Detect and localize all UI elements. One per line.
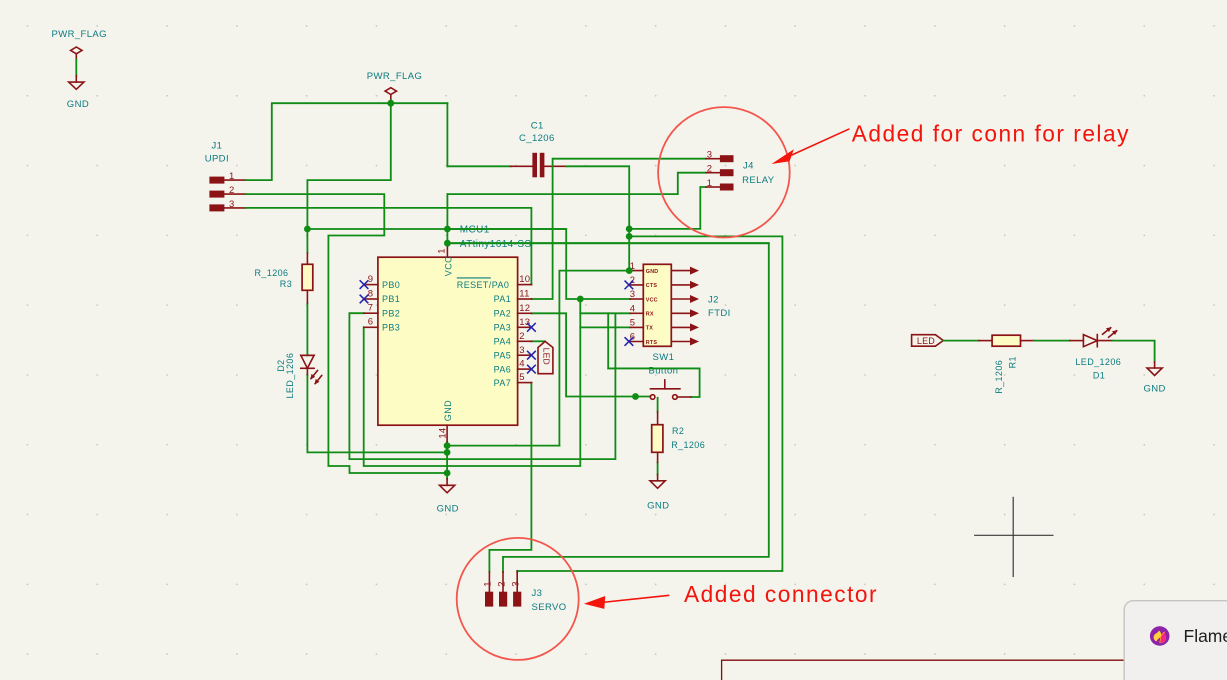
svg-text:PA5: PA5 bbox=[494, 350, 512, 360]
svg-text:RELAY: RELAY bbox=[742, 175, 775, 186]
svg-text:J3: J3 bbox=[532, 588, 543, 599]
ground GND (top-left) bbox=[67, 76, 89, 110]
svg-text:Button: Button bbox=[649, 365, 679, 376]
junction dot VCC/ATtiny row bbox=[444, 240, 451, 247]
global label LED (at PA4) bbox=[538, 341, 553, 373]
svg-text:J1: J1 bbox=[212, 140, 223, 151]
svg-text:CTS: CTS bbox=[646, 283, 658, 289]
svg-text:13: 13 bbox=[519, 317, 530, 328]
svg-text:GND: GND bbox=[67, 99, 89, 110]
svg-text:9: 9 bbox=[368, 274, 373, 285]
wire VCC column down to C1 row bbox=[446, 103, 448, 166]
svg-text:6: 6 bbox=[368, 317, 373, 328]
svg-text:5: 5 bbox=[519, 372, 524, 383]
MCU pin 14 GND (bottom) bbox=[438, 400, 453, 442]
wire J2 TX row bbox=[580, 326, 630, 328]
svg-text:PB1: PB1 bbox=[382, 294, 400, 304]
no-connect X PB0 bbox=[360, 281, 368, 289]
wire PWR junction down to R3 column bbox=[307, 103, 390, 253]
wire J2 RX row bbox=[580, 312, 630, 314]
svg-text:J2: J2 bbox=[708, 295, 719, 306]
svg-text:PA2: PA2 bbox=[494, 309, 512, 319]
cursor crosshair bbox=[974, 497, 1053, 577]
svg-text:4: 4 bbox=[630, 304, 635, 315]
wire relay pin1 branch bbox=[629, 187, 706, 229]
svg-text:PA4: PA4 bbox=[494, 337, 512, 347]
svg-text:C_1206: C_1206 bbox=[519, 133, 555, 144]
junction dot C1 column lower bbox=[626, 233, 633, 240]
svg-text:GND: GND bbox=[647, 501, 669, 512]
wire MCU1 row to J2 VCC bbox=[307, 229, 630, 299]
LED D1 LED_1206 bbox=[1070, 327, 1121, 381]
resistor R3 R_1206 bbox=[255, 253, 313, 303]
svg-text:R_1206: R_1206 bbox=[671, 440, 705, 450]
power flag PWR_FLAG (above MCU) bbox=[367, 71, 422, 100]
svg-text:7: 7 bbox=[368, 303, 373, 314]
svg-text:MCU1: MCU1 bbox=[460, 225, 490, 236]
connector J2 FTDI bbox=[629, 261, 731, 347]
wire PWR_FLAG to GND (top-left) bbox=[75, 60, 77, 76]
svg-text:PA6: PA6 bbox=[494, 364, 512, 374]
switch SW1 Button bbox=[649, 352, 691, 400]
svg-text:GND: GND bbox=[443, 400, 453, 421]
svg-text:3: 3 bbox=[511, 581, 522, 586]
svg-text:14: 14 bbox=[438, 428, 449, 439]
svg-text:VCC: VCC bbox=[444, 256, 454, 276]
svg-text:8: 8 bbox=[368, 288, 373, 299]
svg-text:GND: GND bbox=[646, 269, 659, 275]
svg-text:RX: RX bbox=[646, 312, 654, 318]
svg-text:Added connector: Added connector bbox=[684, 581, 878, 607]
junction dot R3 top bbox=[304, 226, 311, 233]
svg-text:Flame: Flame bbox=[1184, 626, 1227, 646]
svg-text:5: 5 bbox=[630, 318, 635, 329]
ground GND (under R2) bbox=[647, 475, 669, 512]
ground GND (under MCU) bbox=[437, 479, 459, 515]
wire J2 pin1 row bbox=[559, 271, 629, 446]
svg-text:RESET/PA0: RESET/PA0 bbox=[457, 280, 509, 290]
no-connect X J2 CTS bbox=[625, 281, 633, 289]
svg-text:PB2: PB2 bbox=[382, 308, 400, 318]
junction dot J2 pin1 bbox=[626, 267, 633, 274]
junction dot VCC/MCU1 row bbox=[444, 226, 451, 233]
junction dot C1 column upper bbox=[626, 226, 633, 233]
MCU left pins PB0-PB3 bbox=[364, 274, 400, 333]
annotation arrow (relay) bbox=[772, 129, 850, 164]
MCU pin 1 VCC (top) bbox=[437, 246, 454, 276]
capacitor C1 C_1206 bbox=[511, 120, 567, 177]
svg-text:3: 3 bbox=[630, 289, 635, 300]
wire button to R2 bbox=[657, 398, 659, 412]
wire VCC row to relay pin2 bbox=[447, 173, 706, 194]
ground GND (right circuit) bbox=[1144, 362, 1166, 394]
svg-text:LED_1206: LED_1206 bbox=[1075, 357, 1121, 367]
wire PA4 to LED label bbox=[531, 340, 545, 342]
wire PA1 to relay pin3 bbox=[531, 159, 706, 299]
connector J4 RELAY bbox=[706, 150, 775, 191]
svg-text:10: 10 bbox=[519, 274, 530, 285]
wire LED label to R1 bbox=[943, 340, 979, 342]
wire R1 to D1 bbox=[1034, 340, 1070, 342]
svg-text:SW1: SW1 bbox=[653, 352, 675, 363]
svg-text:J4: J4 bbox=[743, 160, 754, 171]
svg-text:11: 11 bbox=[519, 289, 529, 300]
wire RX to button right pin bbox=[608, 313, 699, 397]
svg-text:FTDI: FTDI bbox=[708, 308, 731, 319]
junction dot PWR_FLAG bbox=[387, 100, 394, 107]
svg-text:GND: GND bbox=[437, 504, 459, 515]
svg-text:1: 1 bbox=[437, 248, 448, 253]
svg-text:LED: LED bbox=[917, 336, 935, 346]
wire PWR_FLAG stem to junction bbox=[390, 100, 392, 103]
wire GND bundle row1 bbox=[447, 445, 559, 447]
J2 output arrows bbox=[671, 267, 699, 346]
svg-text:3: 3 bbox=[519, 345, 524, 356]
no-connect X PA6 bbox=[528, 365, 536, 373]
svg-text:LED_1206: LED_1206 bbox=[285, 353, 295, 399]
junction dot button left bbox=[632, 393, 639, 400]
wire overdraw button row (over text) bbox=[608, 367, 699, 369]
svg-text:GND: GND bbox=[1144, 383, 1166, 394]
popup notification (Flame) bbox=[1124, 601, 1227, 680]
wire R2 to GND bbox=[657, 462, 659, 474]
svg-text:R2: R2 bbox=[672, 426, 684, 436]
no-connect X PA5 bbox=[528, 351, 536, 359]
connector J3 SERVO bbox=[483, 571, 567, 613]
wire C1 left lead bbox=[447, 165, 510, 167]
svg-text:R3: R3 bbox=[280, 279, 292, 289]
annotation arrow (servo) bbox=[584, 595, 669, 609]
svg-text:2: 2 bbox=[497, 581, 508, 586]
wire PA2 to button bbox=[531, 313, 650, 396]
svg-text:SERVO: SERVO bbox=[532, 602, 567, 613]
svg-text:4: 4 bbox=[519, 359, 524, 370]
wire C1 right to J2 pin1 column bbox=[566, 166, 629, 270]
microcontroller MCU1 ATtiny1614-SS bbox=[378, 225, 532, 426]
svg-text:Added for conn for relay: Added for conn for relay bbox=[852, 121, 1130, 147]
wire overdraw ATtiny row (over text) bbox=[447, 242, 768, 244]
connector J1 UPDI bbox=[205, 140, 246, 211]
svg-text:R1: R1 bbox=[1008, 356, 1018, 368]
resistor R1 R_1206 bbox=[979, 335, 1034, 394]
svg-text:PWR_FLAG: PWR_FLAG bbox=[52, 29, 107, 40]
svg-text:D1: D1 bbox=[1093, 371, 1105, 381]
wire R3 to D2 bbox=[306, 303, 308, 355]
wire ATtiny row to servo pin2 bbox=[447, 243, 768, 572]
annotation circle (relay) bbox=[658, 107, 790, 237]
wire D1 to GND bbox=[1113, 341, 1155, 362]
svg-text:R_1206: R_1206 bbox=[255, 268, 289, 278]
junction dot GND row3 bbox=[444, 470, 451, 477]
svg-text:RTS: RTS bbox=[646, 340, 658, 346]
svg-text:1: 1 bbox=[483, 581, 494, 586]
wire RX/TX/PB3 column bbox=[364, 299, 581, 466]
wire J1 pin2 bundle route bbox=[246, 194, 448, 473]
svg-text:LED: LED bbox=[542, 348, 552, 365]
junction dot GND row2 bbox=[444, 449, 451, 456]
svg-text:C1: C1 bbox=[531, 120, 544, 131]
wire PB2 to RX column bbox=[349, 313, 615, 459]
no-connect X PB1 bbox=[360, 295, 368, 303]
LED D2 LED_1206 bbox=[276, 353, 322, 399]
junction dot GND row1 bbox=[444, 442, 451, 449]
svg-text:PA3: PA3 bbox=[494, 323, 512, 333]
svg-text:UPDI: UPDI bbox=[205, 154, 229, 165]
global label LED (right circuit) bbox=[912, 335, 944, 347]
svg-text:12: 12 bbox=[519, 303, 530, 314]
no-connect X J2 RTS bbox=[625, 338, 633, 346]
junction dot VCC row / RX column bbox=[577, 296, 584, 303]
sheet border corner bbox=[722, 660, 1140, 680]
svg-text:PB0: PB0 bbox=[382, 280, 400, 290]
svg-text:TX: TX bbox=[646, 326, 653, 332]
wire J1 pin1 to PWR_FLAG row bbox=[246, 103, 448, 180]
wire VCC net vertical (MCU pin1) bbox=[446, 194, 448, 246]
svg-text:ATtiny1614-SS: ATtiny1614-SS bbox=[460, 239, 532, 250]
svg-text:R_1206: R_1206 bbox=[994, 360, 1004, 394]
wire PA7 to servo pin1 bbox=[489, 383, 531, 572]
resistor R2 R_1206 bbox=[652, 412, 705, 463]
svg-text:PA1: PA1 bbox=[494, 294, 512, 304]
svg-text:VCC: VCC bbox=[646, 297, 658, 303]
wire MCU GND column bbox=[446, 442, 448, 479]
wire J1 pin3 to PA0 bbox=[246, 208, 532, 285]
wire overdraw MCU1 row (over text) bbox=[447, 228, 566, 230]
power flag PWR_FLAG (top-left) bbox=[52, 29, 107, 60]
MCU right pins PA0-PA7 bbox=[457, 274, 532, 388]
svg-text:PB3: PB3 bbox=[382, 323, 400, 333]
svg-text:2: 2 bbox=[519, 331, 524, 342]
annotation circle (servo) bbox=[457, 538, 579, 660]
svg-text:PA7: PA7 bbox=[494, 378, 512, 388]
svg-text:PWR_FLAG: PWR_FLAG bbox=[367, 71, 422, 82]
no-connect X PA3 bbox=[528, 324, 536, 332]
wire relay/servo pin3 branch bbox=[517, 236, 782, 572]
wire D2 to GND row bbox=[307, 375, 447, 453]
